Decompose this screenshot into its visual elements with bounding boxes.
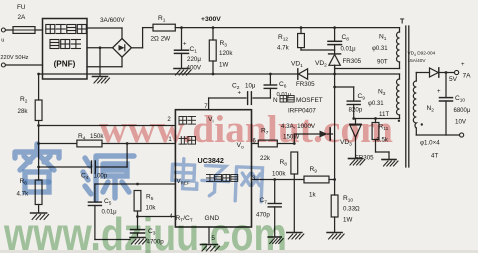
- diode VD2 FR305: [315, 54, 362, 74]
- capacitor C5 0.01u: [88, 184, 117, 240]
- wire vref row: [95, 183, 175, 186]
- winding N2 4T: [413, 73, 434, 136]
- label +300V: [201, 16, 221, 23]
- resistor R12 4.7k: [277, 28, 335, 52]
- ground R6: [31, 213, 49, 220]
- label 5V 7A: [449, 73, 471, 84]
- wire pin3 row: [252, 178, 305, 181]
- wire bottom return: [95, 239, 130, 241]
- ground C7: [268, 237, 283, 244]
- resistor R5 10k: [134, 191, 156, 217]
- wire to pin2: [39, 125, 176, 127]
- transformer T core: [400, 19, 409, 168]
- resistor R1 2ohm 2W: [151, 15, 176, 43]
- wire secondary top: [416, 72, 429, 74]
- pin 3 current sense: [252, 176, 256, 182]
- diode VD1 FR305: [291, 61, 336, 89]
- svg-text:φ0.31: φ0.31: [372, 46, 388, 52]
- svg-text:u: u: [1, 38, 4, 44]
- svg-text:φ1.0×4: φ1.0×4: [420, 140, 440, 147]
- svg-text:+: +: [461, 62, 465, 68]
- svg-text:1W: 1W: [219, 62, 228, 69]
- mosfet label: [273, 96, 323, 141]
- svg-text:4T: 4T: [431, 153, 438, 160]
- fuse FU 2A: [13, 4, 43, 33]
- svg-text:22k: 22k: [260, 155, 271, 162]
- wire vcc cap row: [209, 97, 271, 99]
- svg-text:www.dzjuu.com: www.dzjuu.com: [3, 208, 287, 253]
- svg-text:φ0.31: φ0.31: [368, 101, 384, 107]
- svg-text:0.01μ: 0.01μ: [277, 92, 292, 98]
- resistor R4 150k: [39, 133, 176, 147]
- svg-text:15A/40V: 15A/40V: [408, 58, 427, 63]
- svg-text:220V 50Hz: 220V 50Hz: [0, 55, 28, 61]
- svg-text:+300V: +300V: [201, 16, 221, 23]
- capacitor C1 220u 400V: [175, 28, 202, 72]
- resistor R8 100k: [272, 152, 298, 232]
- capacitor C8 0.01u: [328, 28, 356, 54]
- svg-text:0.33Ω: 0.33Ω: [343, 206, 360, 213]
- capacitor C3 4700p: [131, 217, 165, 246]
- wire drain tap: [333, 86, 354, 89]
- pin 4 RtCt: [169, 214, 173, 220]
- svg-text:4.7k: 4.7k: [277, 45, 290, 52]
- wire rail R1 to transformer: [175, 26, 399, 29]
- wire vcc to feedback winding: [335, 74, 400, 79]
- ground R10: [327, 233, 344, 240]
- label u: [1, 38, 4, 44]
- winding N3 11T: [368, 79, 400, 122]
- wire to pin4: [136, 215, 175, 218]
- svg-text:120k: 120k: [219, 50, 233, 57]
- resistor R6 4.7k: [17, 178, 43, 212]
- label 220V 50Hz: [0, 55, 28, 61]
- wire junction to ground: [99, 48, 101, 76]
- pin 2 feedback: [167, 117, 171, 123]
- svg-text:10μ: 10μ: [245, 83, 256, 90]
- capacitor C10 6800u 10V: [437, 73, 471, 136]
- svg-text:6800μ: 6800μ: [454, 108, 471, 114]
- svg-text:FR305: FR305: [343, 58, 362, 65]
- watermark blue rongyuan: [15, 144, 134, 200]
- svg-text:0.01μ: 0.01μ: [341, 47, 357, 53]
- resistor R2 28k: [18, 74, 43, 180]
- IC U1 UC3842 PWM controller: [175, 110, 251, 227]
- ground R11: [382, 160, 398, 167]
- pin 7 Vcc: [204, 98, 208, 110]
- wire bridge + output: [131, 28, 142, 48]
- svg-text:+: +: [437, 89, 441, 95]
- diode VD3 FR305: [340, 119, 374, 162]
- pin 1 comp: [168, 137, 172, 143]
- wire bridge AC bottom: [87, 57, 122, 67]
- ground C3: [130, 238, 147, 245]
- ground VD3: [349, 159, 365, 166]
- capacitor C6 0.01u: [264, 74, 291, 98]
- svg-text:FR305: FR305: [296, 81, 315, 88]
- ground R8: [287, 233, 304, 240]
- watermark red url: [99, 108, 393, 151]
- watermark blue dianziwang: [171, 158, 263, 202]
- wire gate: [294, 134, 319, 144]
- wire secondary bottom: [416, 134, 459, 136]
- svg-text:+: +: [183, 42, 187, 48]
- svg-text:220μ: 220μ: [187, 56, 201, 63]
- wire vcc row: [37, 73, 297, 76]
- wire filter to bridge AC top: [87, 28, 122, 39]
- svg-text:MOSFET: MOSFET: [296, 97, 323, 104]
- svg-text:1k: 1k: [309, 192, 316, 199]
- svg-text:www.dianlut.com: www.dianlut.com: [99, 108, 393, 151]
- label phi1.0x4 4T: [420, 140, 440, 160]
- svg-text:FU: FU: [17, 4, 26, 11]
- diode VD4 D92-004 15A/40V: [408, 51, 455, 78]
- capacitor C7 470p: [256, 180, 281, 237]
- svg-text:3A/600V: 3A/600V: [100, 17, 125, 24]
- gate arrow: [320, 128, 333, 140]
- winding N1 90T: [372, 28, 400, 66]
- svg-text:N: N: [273, 97, 278, 104]
- mosfet Q1 channel: [334, 65, 336, 195]
- terminal output +: [455, 62, 466, 75]
- svg-text:T: T: [400, 19, 405, 26]
- svg-text:2A: 2A: [18, 14, 27, 21]
- terminal input N: [1, 63, 42, 67]
- svg-text:(PNF): (PNF): [54, 60, 76, 69]
- svg-text:28k: 28k: [18, 108, 29, 115]
- wire filter to bridge left: [87, 46, 113, 49]
- resistor R11 0.5k: [372, 119, 389, 159]
- resistor R7 22k: [252, 128, 296, 163]
- svg-text:90T: 90T: [377, 59, 388, 66]
- watermark green url: [3, 208, 287, 253]
- svg-text:UC3842: UC3842: [198, 156, 224, 165]
- capacitor C9 820p: [347, 87, 365, 119]
- svg-text:5V: 5V: [449, 76, 458, 83]
- terminal input L: [1, 28, 13, 32]
- ground bridge: [93, 77, 110, 84]
- capacitor C4 100p: [39, 144, 128, 182]
- bridge rectifier 3A/600V: [100, 17, 131, 57]
- svg-text:7A: 7A: [463, 73, 472, 80]
- pin 6 output: [253, 139, 257, 145]
- ground C1: [174, 69, 191, 76]
- terminal output -: [460, 133, 464, 137]
- power noise filter box PNF: [43, 19, 88, 80]
- svg-text:+: +: [238, 91, 242, 97]
- wire primary bottom to drain: [335, 62, 400, 69]
- svg-text:2Ω 2W: 2Ω 2W: [151, 36, 172, 43]
- svg-text:10V: 10V: [455, 119, 467, 126]
- wire snubber row: [352, 117, 399, 120]
- resistor R3 120k 1W: [209, 28, 233, 74]
- svg-text:1W: 1W: [343, 217, 352, 224]
- resistor R9 1k: [304, 166, 336, 199]
- svg-text:100k: 100k: [272, 171, 286, 178]
- wire dc rail: [143, 27, 153, 29]
- resistor R10 0.33ohm 1W: [331, 195, 360, 232]
- capacitor C2 10u: [232, 83, 256, 105]
- pin 5 gnd: [201, 227, 220, 251]
